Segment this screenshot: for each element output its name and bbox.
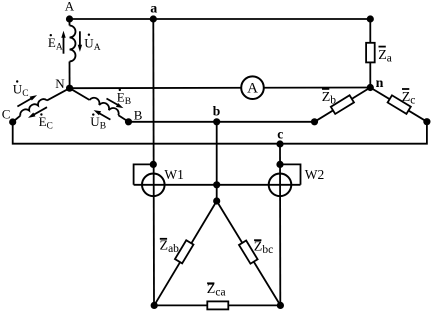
coil phase B (winding between N and B) [70,88,129,122]
node n [367,84,374,91]
svg-text:UA: UA [84,36,100,54]
label Zab [160,239,180,256]
svg-text:Za: Za [378,48,392,65]
svg-text:C: C [2,106,11,121]
label UA [84,34,100,54]
svg-text:A: A [65,0,75,14]
label Zbc [254,240,273,257]
wire W1 voltage loop [134,164,154,184]
wire delta left leg [154,201,217,305]
node c [276,140,283,147]
svg-text:EC: EC [39,114,53,132]
coil phase C (winding between N and C) [13,88,70,122]
ammeter A1 [241,76,264,99]
node delta bottom-left [151,302,158,309]
node a [150,15,157,22]
label Zca [207,282,226,299]
wire c-line vertical (c down to delta bottom-right) [279,144,281,306]
svg-text:c: c [277,126,283,141]
wire N to n (ammeter line) [70,87,371,90]
svg-text:a: a [150,2,157,17]
label Zc [402,89,416,107]
wire W2 voltage loop [280,164,301,184]
wire C rail (C down, across, up to Zc end) [13,122,427,144]
label EB [117,89,131,107]
arrow UA [78,31,82,52]
node Zb end [311,118,318,125]
svg-text:A: A [247,80,258,96]
wattmeter W2 [269,174,292,197]
arrow EB [107,99,124,109]
resistor Zb [331,95,354,114]
wire W1-W2 horizontal line [134,184,301,186]
svg-text:UC: UC [13,82,29,100]
wire delta right leg [217,201,281,305]
resistor Zab [175,240,194,263]
label UB [90,113,106,131]
wire delta bottom [154,304,280,306]
arrow EC [28,107,47,118]
node Zc end [423,118,430,125]
svg-text:Zbc: Zbc [254,240,273,257]
coil phase A (winding between A and N) [70,19,76,88]
svg-text:W2: W2 [305,167,325,182]
wire B rail [129,121,315,123]
node W2 tap [276,161,283,168]
resistor Zc [388,95,411,114]
wire n to Zb end [315,88,371,122]
label UC [13,80,29,99]
resistor Zca [207,301,228,309]
svg-text:Zc: Zc [402,90,416,107]
svg-text:b: b [213,103,221,118]
node C [9,118,16,125]
svg-text:EA: EA [48,35,63,53]
resistor Zbc [239,241,258,264]
svg-text:W1: W1 [164,167,184,182]
wattmeter W1 [142,174,165,197]
label EA [48,34,63,53]
wire b-line vertical (b down to delta apex) [216,122,218,201]
node b [213,118,220,125]
wire Za branch vertical [369,19,371,88]
node delta bottom-right [277,302,284,309]
wire n to Zc end [370,88,427,122]
wire a-line vertical (a down to delta bottom-left) [152,19,155,305]
svg-text:Zb: Zb [322,90,337,107]
label Za [378,47,392,65]
node B [125,118,132,125]
svg-text:N: N [55,76,65,91]
wire top rail A-a-(Za top) [70,18,371,20]
arrow UB [94,110,111,120]
arrow UC [17,95,37,106]
svg-text:n: n [376,76,384,91]
node W1 tap [150,161,157,168]
node junction b-line/W line [213,181,220,188]
label Zb [322,89,337,106]
svg-text:EB: EB [117,90,131,108]
svg-text:Zca: Zca [207,282,226,299]
arrow EA [61,31,65,54]
node delta apex [213,197,220,204]
node A [66,15,73,22]
svg-text:Zab: Zab [160,239,180,256]
node corner above Za [367,15,374,22]
node N [66,85,73,92]
svg-text:UB: UB [90,114,106,132]
label EC [39,113,53,131]
resistor Za [366,43,375,63]
svg-text:B: B [134,108,143,123]
